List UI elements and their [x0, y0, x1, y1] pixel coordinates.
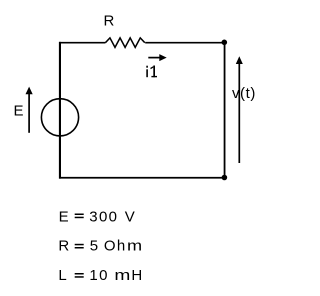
svg-text:H: H — [131, 267, 143, 284]
svg-text:h: h — [117, 238, 126, 255]
svg-text:L: L — [58, 267, 67, 284]
svg-text:E: E — [59, 208, 70, 225]
svg-text:5: 5 — [90, 238, 99, 255]
svg-text:O: O — [104, 238, 117, 255]
svg-text:300: 300 — [89, 208, 118, 225]
svg-text:m: m — [114, 266, 130, 283]
svg-text:10: 10 — [89, 267, 108, 284]
svg-text:E: E — [14, 103, 24, 120]
svg-text:R: R — [58, 238, 70, 255]
svg-text:m: m — [127, 237, 142, 254]
svg-text:v(t): v(t) — [232, 85, 256, 102]
svg-text:R: R — [104, 13, 115, 30]
svg-text:V: V — [125, 208, 136, 225]
